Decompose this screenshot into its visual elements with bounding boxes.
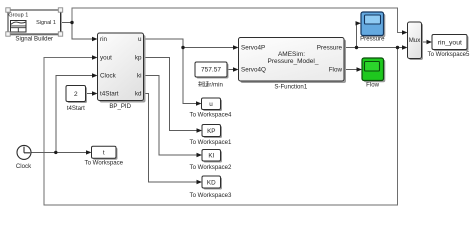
svg-text:kp: kp <box>135 55 142 62</box>
svg-text:r/min: r/min <box>209 81 223 88</box>
svg-text:kd: kd <box>135 91 142 98</box>
svg-text:rin: rin <box>100 36 107 43</box>
svg-text:Pressure: Pressure <box>360 36 385 43</box>
svg-text:Signal Builder: Signal Builder <box>15 36 53 43</box>
svg-text:yout: yout <box>100 55 112 62</box>
svg-text:rin_yout: rin_yout <box>438 39 462 46</box>
svg-text:u: u <box>209 101 213 108</box>
svg-text:t: t <box>103 150 105 157</box>
svg-text:Signal 1: Signal 1 <box>36 20 56 26</box>
svg-text:To Workspace5: To Workspace5 <box>428 51 470 58</box>
svg-text:Clock: Clock <box>16 163 32 170</box>
svg-text:To Workspace3: To Workspace3 <box>190 192 232 199</box>
svg-text:Pressure_Model_: Pressure_Model_ <box>268 58 319 65</box>
svg-text:KD: KD <box>207 179 216 186</box>
svg-text:BP_PID: BP_PID <box>109 103 131 110</box>
svg-text:ki: ki <box>137 73 142 80</box>
svg-text:KI: KI <box>208 153 214 160</box>
svg-text:Flow: Flow <box>366 82 379 89</box>
svg-text:757.57: 757.57 <box>201 67 221 74</box>
svg-text:To Workspace1: To Workspace1 <box>190 139 232 146</box>
svg-text:Mux: Mux <box>409 37 421 44</box>
svg-text:To Workspace2: To Workspace2 <box>190 164 232 171</box>
svg-text:S-Function1: S-Function1 <box>274 84 307 91</box>
svg-text:KP: KP <box>207 128 215 135</box>
svg-text:Flow: Flow <box>329 67 343 74</box>
svg-text:t4Start: t4Start <box>67 105 85 112</box>
svg-text:Pressure: Pressure <box>317 45 343 52</box>
svg-text:Servo4Q: Servo4Q <box>241 67 266 74</box>
svg-text:t4Start: t4Start <box>100 91 119 98</box>
svg-text:u: u <box>138 36 142 43</box>
svg-text:To Workspace4: To Workspace4 <box>190 111 232 118</box>
svg-text:Clock: Clock <box>100 73 117 80</box>
svg-text:Group 1: Group 1 <box>8 13 28 19</box>
svg-text:2: 2 <box>74 91 78 98</box>
svg-text:Servo4P: Servo4P <box>241 45 265 52</box>
svg-text:To Workspace: To Workspace <box>85 159 124 166</box>
